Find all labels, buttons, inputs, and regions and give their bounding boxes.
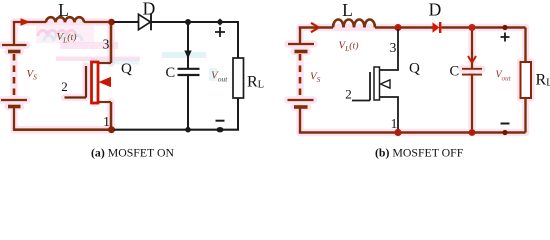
svg-text:(b) MOSFET OFF: (b) MOSFET OFF [375,146,464,160]
MOSFET Q1 (a): source lead [98,101,111,103]
wire right vertical upper (b) [524,28,526,63]
current arrow (a) top-left [21,18,31,26]
svg-text:Q: Q [409,61,420,77]
output - terminal dot (b) [502,130,507,135]
label - (a) [216,120,225,122]
battery VS (a): top cell plates [2,45,27,52]
svg-text:1: 1 [391,116,398,131]
wire right vertical lower (a) [237,98,239,130]
junction dot node 3 (b) [395,24,402,31]
svg-text:RL: RL [247,74,264,91]
svg-text:1: 1 [103,114,110,129]
label - (b) [501,123,510,125]
svg-text:L: L [58,0,69,20]
svg-text:3: 3 [103,37,110,52]
current arrow into capacitor (a) [184,51,191,59]
output + terminal dot (a) [216,18,223,25]
wire capacitor branch lower (b) [471,75,473,133]
output + terminal dot (b) [502,25,507,30]
wire top rail red (b): battery+ to inductor [300,26,333,27]
junction dot capacitor top (a) [185,19,191,25]
svg-text:(a) MOSFET ON: (a) MOSFET ON [91,146,175,160]
svg-text:Q: Q [121,61,132,77]
svg-text:C: C [166,65,176,81]
label + (a) [215,27,225,37]
svg-text:VS: VS [27,68,38,82]
wire capacitor branch upper (a) [187,22,189,68]
MOSFET Q (b): source lead to node 1 [380,97,399,131]
svg-text:2: 2 [345,87,352,102]
wire top rail black (a): diode to output corner [151,21,238,23]
wire left vertical (b) battery top [299,28,301,45]
wire top rail red (b): diode to output corner [442,26,526,29]
wire bottom rail red (b) [299,131,526,134]
svg-text:C: C [450,64,460,80]
wire capacitor branch lower (a) [187,75,189,130]
cyan jpeg artifact smudges [38,31,76,36]
battery VS (b): bottom cell plates [288,100,314,107]
junction dot capacitor top (b) [469,24,476,31]
wire MOSFET source to node 1 (a) [110,102,113,130]
wire node 3 to MOSFET drain (b, off, black) [380,29,399,70]
battery VS (b): dashed cell continuation [299,54,302,96]
svg-text:VS: VS [310,71,321,85]
battery VS (a): dashed cell continuation [13,54,16,97]
MOSFET Q1 (a): body arrow (on) [99,77,112,87]
node 3 (a): wire down to MOSFET drain [110,22,113,63]
resistor RL (b) box [521,62,532,98]
resistor RL (a) box [233,58,244,98]
MOSFET Q1 (a): gate line [65,66,87,98]
diode D (a): cathode bar [150,14,152,31]
inductor L (a) coil [46,17,84,22]
diode D (b): conducting triangle (red) [433,22,440,32]
MOSFET Q (b): body arrow (open) [381,80,391,88]
label + (b) [501,33,510,42]
capacitor C (b): plates [462,69,482,75]
MOSFET Q1 (a): channel bar (on, highlighted red) [92,62,99,103]
svg-text:2: 2 [61,79,68,94]
junction dot node 1 (a) [108,126,115,133]
svg-text:VL(t): VL(t) [339,40,359,54]
junction dot capacitor bottom (b) [469,129,476,136]
wire top rail left red (a): battery+ to inductor to node 3 [14,21,111,22]
svg-text:D: D [429,0,442,20]
current arrow (b) top-left [311,23,319,32]
current arrow into capacitor (b) [468,56,476,63]
wire battery- to bottom rail (b) [299,107,301,133]
wire left vertical (a): battery stack [13,22,15,45]
svg-text:Vout: Vout [211,70,228,84]
MOSFET Q (b): gate line [352,72,370,101]
svg-text:RL: RL [536,72,550,89]
inductor L (b) coil [333,20,375,28]
wire top rail black (a): node 3 to diode anode [114,21,139,23]
svg-text:VL(t): VL(t) [57,31,77,45]
wire right vertical lower (b) [524,98,526,133]
svg-text:L: L [342,0,353,20]
wire halo artifacts (pink glow along red wires) [1,22,531,133]
wire battery- down to bottom rail (a) [13,107,15,130]
battery VS (b): top cell plates [288,44,314,52]
wire right vertical upper (a): to load [237,21,239,58]
wire bottom rail red (a): battery to node 1 [13,128,111,131]
MOSFET Q (b): channel bar [374,67,380,100]
MOSFET Q1 (a): drain lead [98,62,111,64]
svg-text:3: 3 [390,40,397,55]
wire top rail red (b): inductor to node 3 to diode [375,26,433,29]
diode D (b): cathode bar [439,22,441,33]
junction dot node 3 (a) [108,19,115,26]
output - terminal dot (a) [217,127,224,132]
battery VS (a): bottom cell plates [1,100,27,107]
svg-text:Vout: Vout [496,70,512,83]
junction dot node 1 (b) [394,129,401,136]
svg-text:D: D [143,0,156,19]
wire capacitor branch upper (b) [471,28,473,69]
junction dot capacitor bottom (a) [185,127,191,133]
diode D (a): triangle (blocking, open) [139,14,151,29]
capacitor C (a): plates [178,68,200,70]
wire bottom rail black (a): node 1 to load [114,129,239,131]
